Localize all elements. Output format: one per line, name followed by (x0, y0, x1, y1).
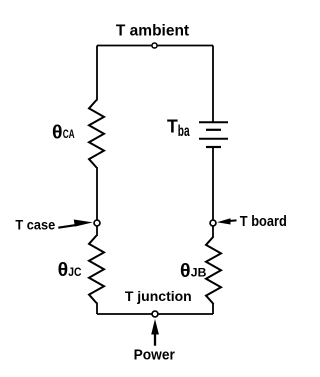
arrow Power (151, 319, 159, 335)
svg-text:θ: θ (52, 121, 63, 143)
wire left vertical bottom (96, 303, 98, 315)
svg-text:T case: T case (15, 217, 55, 233)
svg-text:JC: JC (68, 265, 81, 279)
wire right vertical middle (212, 148, 214, 220)
wire left vertical upper (96, 46, 98, 101)
wire bottom horizontal (97, 313, 213, 315)
svg-text:ba: ba (178, 123, 190, 140)
svg-text:T: T (167, 115, 178, 136)
wire right below board node (212, 226, 214, 237)
resistor thetaCA (89, 100, 104, 168)
svg-text:Power: Power (134, 347, 176, 363)
wire left below case node (96, 226, 98, 236)
node T board circle (210, 220, 216, 226)
node T case circle (94, 220, 100, 226)
battery Tba plate short (206, 129, 221, 131)
svg-text:CA: CA (63, 127, 75, 141)
svg-text:JB: JB (191, 266, 207, 280)
battery Tba plate short bottom (206, 146, 221, 148)
svg-text:T junction: T junction (125, 288, 192, 304)
svg-text:T ambient: T ambient (116, 23, 189, 40)
arrow T case (58, 225, 75, 228)
wire top horizontal (97, 45, 213, 47)
arrow T board (217, 218, 231, 224)
wire right vertical bottom (212, 304, 214, 315)
battery Tba plate long top (199, 121, 228, 123)
svg-text:θ: θ (180, 260, 191, 282)
battery Tba plate long bottom (199, 138, 228, 140)
node T ambient circle (152, 43, 157, 48)
svg-text:θ: θ (58, 259, 69, 281)
resistor thetaJB (206, 237, 221, 305)
wire right vertical upper (212, 46, 214, 123)
node T junction circle (152, 311, 158, 317)
wire left vertical middle (96, 167, 98, 220)
svg-text:T board: T board (240, 214, 287, 230)
resistor thetaJC (89, 236, 104, 304)
